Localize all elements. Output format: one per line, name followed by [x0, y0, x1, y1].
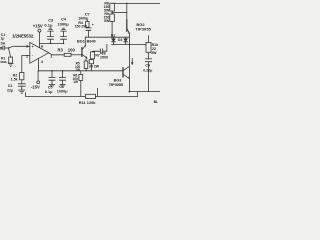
ground under C2	[19, 90, 25, 93]
svg-text:1500: 1500	[100, 56, 108, 60]
svg-text:D1: D1	[111, 34, 115, 38]
svg-text:0.1μ: 0.1μ	[44, 23, 53, 28]
node -15V terminal	[37, 81, 40, 84]
wire rise to pin3	[9, 46, 14, 48]
node junction C5	[51, 70, 53, 72]
wire pin4 stub	[38, 58, 40, 70]
svg-text:100: 100	[68, 47, 76, 52]
svg-text:C6: C6	[59, 85, 64, 89]
svg-text:1: 1	[50, 55, 52, 59]
wire pin1 output	[49, 53, 64, 55]
svg-text:TIP3055: TIP3055	[109, 82, 124, 87]
wire C1 to node	[5, 47, 8, 49]
wire R6 to bottom wire	[80, 80, 82, 96]
svg-text:1/2NE5532: 1/2NE5532	[12, 34, 34, 39]
diode D2	[124, 37, 128, 44]
capacitor C7	[86, 27, 92, 37]
wire pin2	[22, 56, 30, 73]
svg-text:1.5k: 1.5k	[11, 78, 18, 82]
node input junction	[8, 47, 10, 49]
capacitor C1	[3, 46, 5, 50]
resistor R9	[110, 14, 115, 21]
wire R1 stub	[9, 49, 11, 58]
diode D1	[112, 37, 116, 44]
svg-text:30 2W: 30 2W	[89, 64, 100, 68]
wire R10 to C9	[147, 52, 149, 59]
svg-text:TIP3055: TIP3055	[135, 26, 151, 31]
wire BG1 emitter to R5	[86, 58, 87, 61]
node BG1 collector junction	[85, 45, 86, 46]
wire R8 R9 link	[111, 11, 113, 14]
op-amp U1 1/2NE5532	[30, 42, 49, 63]
svg-text:R11 120k: R11 120k	[79, 100, 96, 105]
svg-text:1000μ: 1000μ	[78, 17, 88, 21]
wire C8 right	[103, 45, 107, 52]
wire BG2 base feed	[112, 12, 127, 14]
svg-text:R3: R3	[58, 47, 64, 52]
svg-text:1W: 1W	[75, 68, 80, 72]
capacitor C6	[60, 71, 66, 86]
wire +15V drop	[39, 32, 41, 47]
wire bottom feedback	[26, 93, 86, 97]
svg-text:BL: BL	[154, 100, 159, 104]
wire BG1 collector riser	[84, 37, 86, 46]
resistor R6	[79, 74, 83, 80]
svg-text:C9: C9	[145, 64, 150, 68]
node bus junction R9	[111, 37, 112, 38]
resistor R10	[146, 42, 151, 52]
svg-text:8: 8	[41, 45, 43, 49]
svg-text:4: 4	[41, 60, 44, 64]
node junction C3 rail	[50, 43, 52, 45]
svg-text:-15V: -15V	[31, 84, 40, 89]
svg-text:0.1μ: 0.1μ	[45, 90, 53, 94]
resistor R7	[91, 52, 95, 59]
svg-text:DA: DA	[1, 42, 6, 46]
svg-text:+: +	[92, 23, 94, 27]
svg-text:1000μ: 1000μ	[57, 21, 69, 26]
svg-text:+15V: +15V	[33, 24, 43, 29]
svg-text:1000μ: 1000μ	[57, 89, 68, 93]
svg-text:C2: C2	[8, 84, 13, 88]
wire +15V rail	[40, 42, 64, 44]
node +15V terminal	[38, 29, 41, 32]
wire -15V drop	[37, 71, 39, 81]
capacitor C9	[145, 59, 151, 92]
capacitor C3	[48, 28, 54, 43]
capacitor C8	[100, 49, 102, 54]
capacitor C2	[18, 84, 25, 90]
svg-text:-: -	[32, 54, 34, 58]
node rail junction	[126, 3, 128, 5]
svg-text:680k: 680k	[0, 60, 7, 64]
svg-text:1W: 1W	[73, 80, 78, 84]
svg-text:B649: B649	[87, 39, 96, 43]
resistor R3	[64, 53, 71, 56]
resistor R7b lower box	[89, 60, 93, 64]
wire output column	[128, 34, 130, 92]
node base junction	[111, 12, 113, 14]
svg-text:1μ: 1μ	[1, 37, 5, 41]
wire R6 stub	[80, 71, 82, 75]
node junction C6	[62, 70, 64, 72]
svg-text:5W: 5W	[104, 19, 110, 23]
wire R9 bottom drop	[111, 21, 113, 37]
wire mid rail	[39, 70, 123, 72]
wire R10 top stub	[147, 36, 149, 43]
resistor R11	[86, 94, 96, 98]
resistor R8	[110, 3, 115, 11]
transistor BG3 TIP3055	[123, 66, 130, 78]
wire R7 chain to rail	[90, 64, 92, 71]
node output junction	[129, 44, 131, 46]
wire C8 left	[93, 50, 101, 53]
wire output row	[112, 44, 146, 46]
wire output arrow	[131, 58, 133, 65]
wire pin3 input	[14, 45, 30, 47]
wire bottom right with riser	[96, 92, 138, 97]
svg-text:3: 3	[26, 44, 28, 48]
wire diode top bus	[85, 36, 129, 38]
svg-text:2: 2	[26, 54, 28, 58]
resistor R5	[84, 61, 88, 69]
wire R2 to C2	[21, 80, 23, 84]
svg-text:D2: D2	[118, 38, 122, 42]
wire R3 to BG1 base	[71, 54, 81, 56]
ground under R1	[8, 64, 13, 67]
node junction C4 rail	[63, 43, 65, 45]
node input terminal	[0, 47, 2, 49]
wire top +V rail	[112, 2, 160, 4]
svg-text:0.22μ: 0.22μ	[143, 69, 152, 73]
svg-text:BG1: BG1	[77, 39, 85, 43]
capacitor C4	[61, 28, 67, 43]
node output bottom junction	[129, 91, 131, 93]
wire output to right edge	[129, 91, 160, 93]
transistor BG2 TIP3055	[127, 3, 130, 33]
wire stub mid bottom	[96, 88, 98, 96]
svg-text:22μ: 22μ	[7, 89, 13, 93]
resistor R2	[20, 73, 24, 80]
resistor R4	[86, 20, 89, 27]
transistor BG1 B649	[82, 46, 87, 58]
svg-text:+: +	[32, 45, 34, 49]
capacitor C5	[49, 71, 55, 86]
resistor R1	[9, 57, 13, 63]
svg-text:2W: 2W	[151, 51, 157, 55]
